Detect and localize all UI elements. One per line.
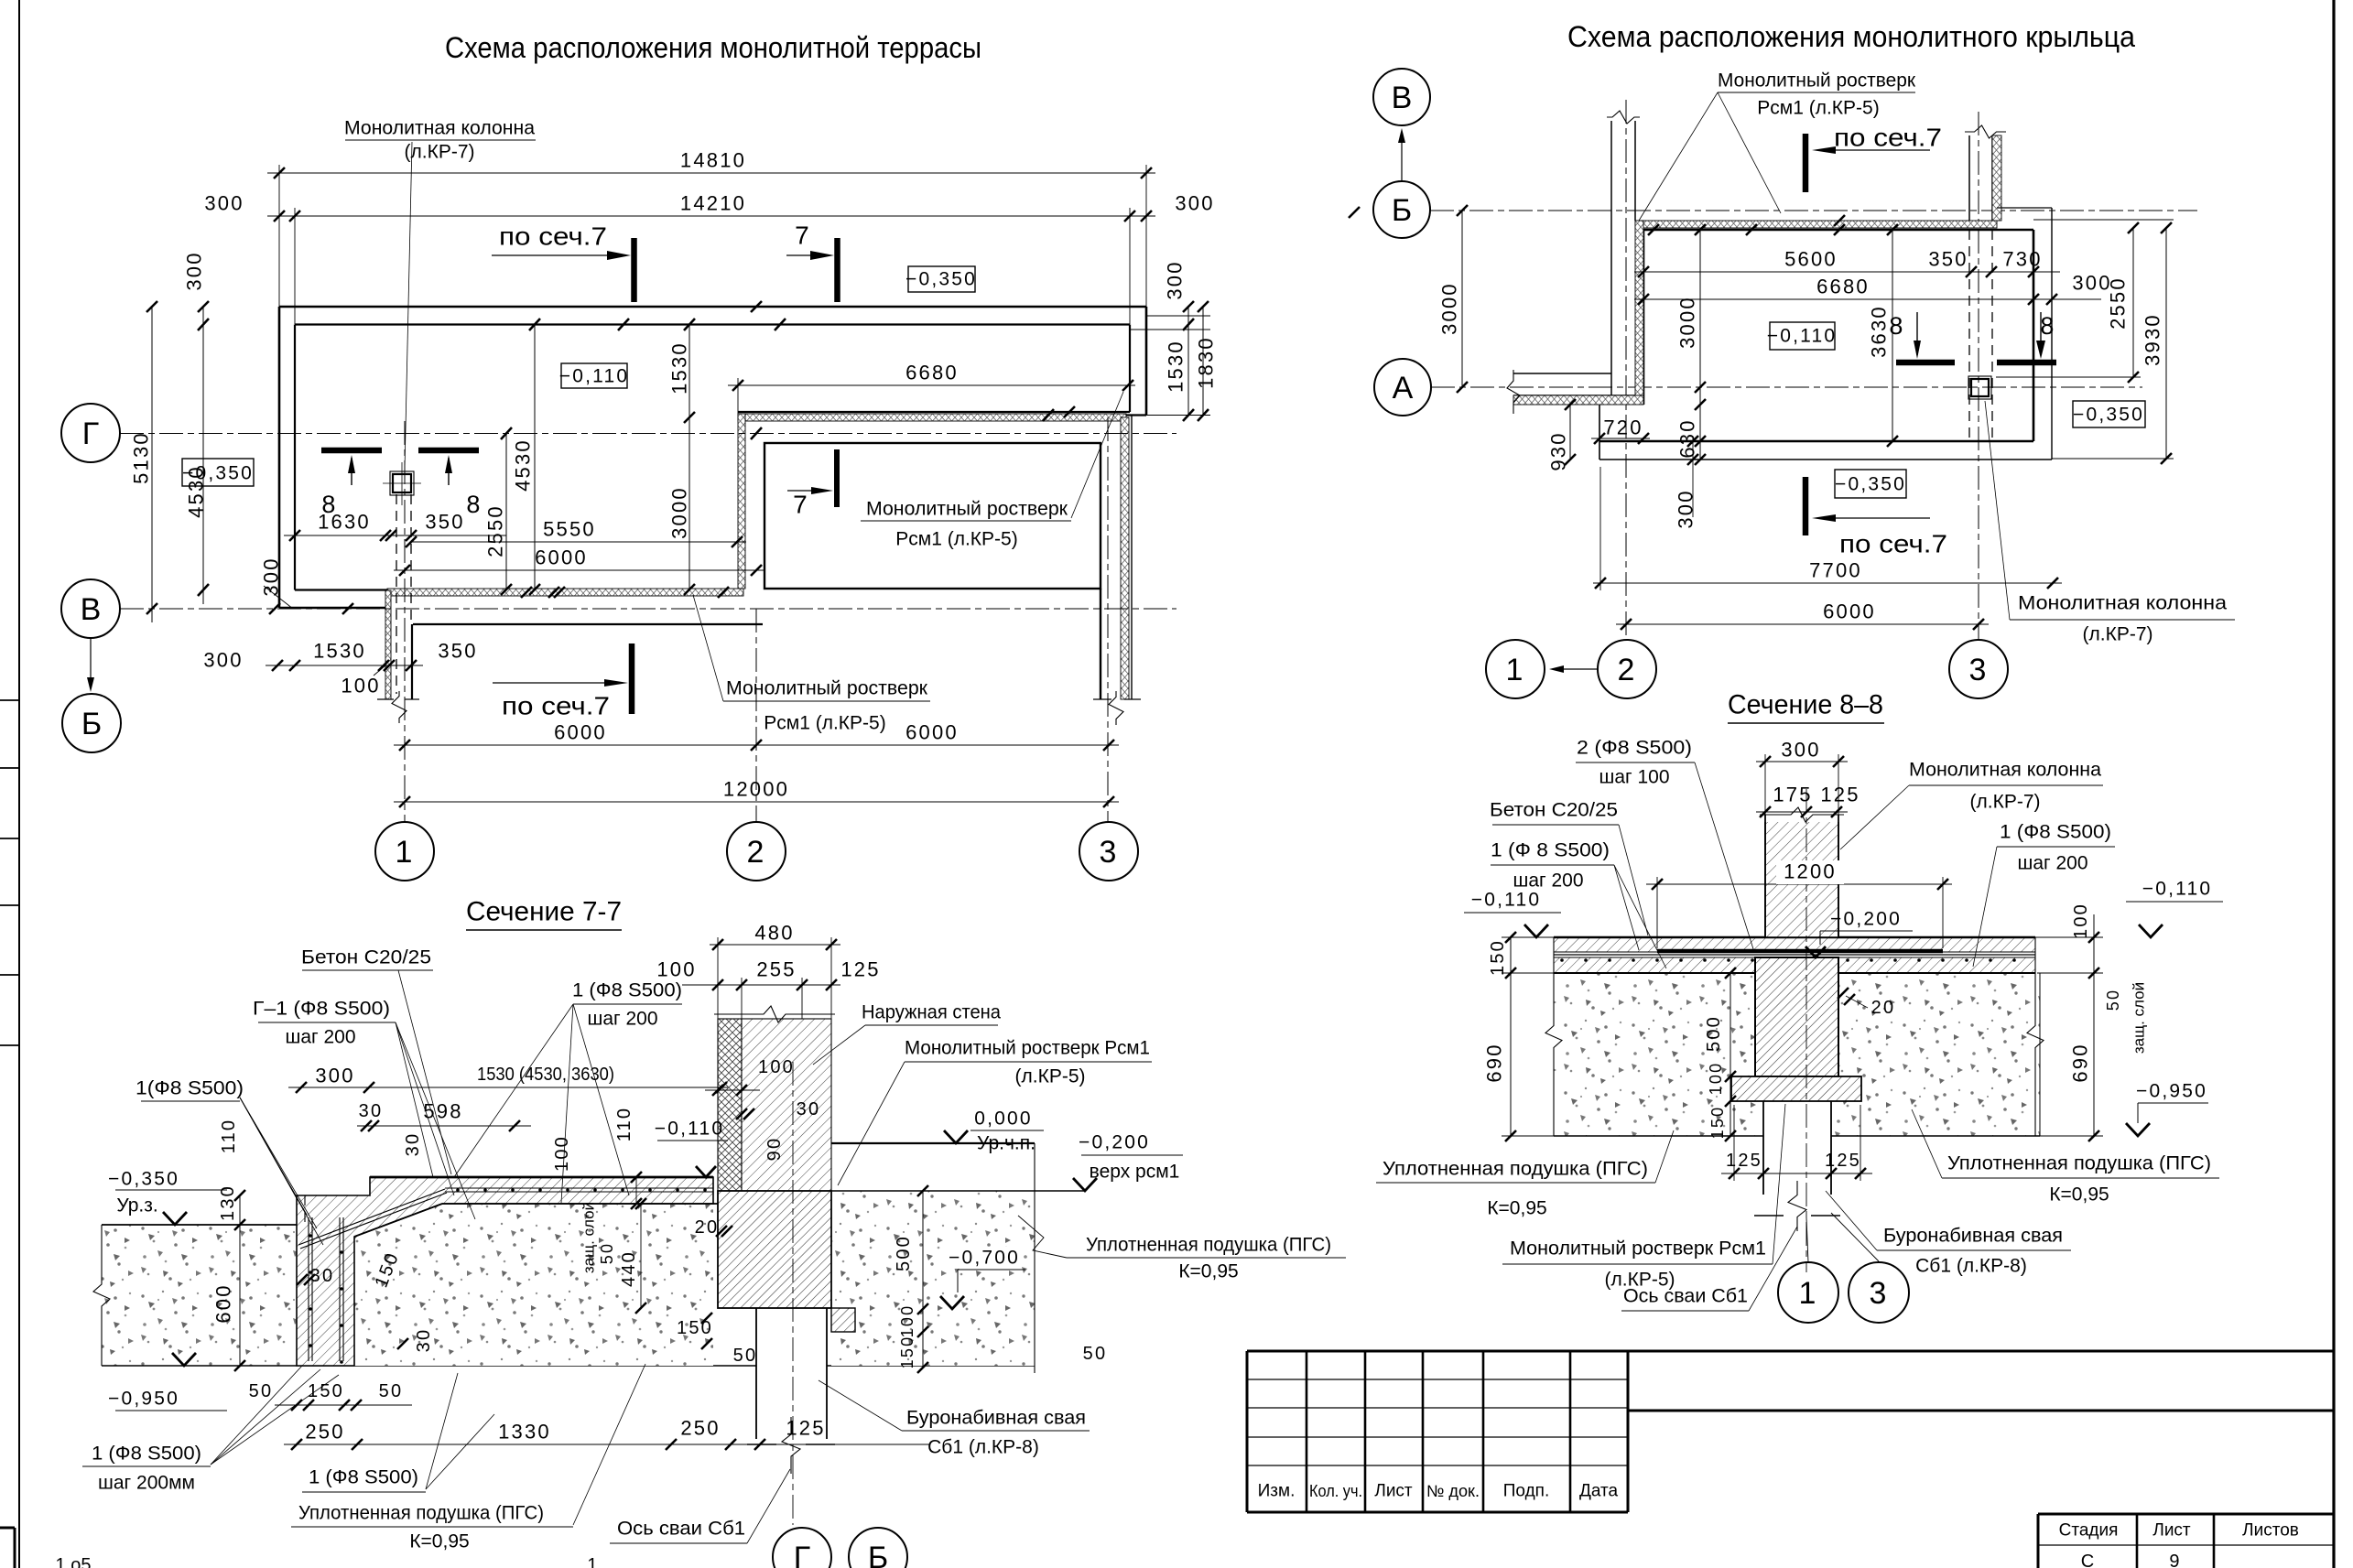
svg-text:125: 125 bbox=[1825, 1151, 1861, 1171]
dim row 1630 350 bbox=[284, 535, 506, 536]
leader bottom label bbox=[693, 595, 723, 701]
svg-text:20: 20 bbox=[695, 1217, 720, 1238]
svg-text:100: 100 bbox=[898, 1304, 916, 1338]
svg-text:175: 175 bbox=[1773, 784, 1812, 806]
svg-text:110: 110 bbox=[614, 1107, 634, 1142]
svg-text:−0,350: −0,350 bbox=[108, 1169, 179, 1190]
middle bed stipple under slab bbox=[370, 1204, 713, 1366]
svg-text:№ док.: № док. bbox=[1426, 1482, 1480, 1500]
slab top thick line 8-8 bbox=[1554, 936, 2035, 939]
slab bottom lines 8-8 bbox=[1554, 972, 1755, 974]
right vertical dim 1830 bbox=[1202, 307, 1204, 416]
svg-text:Лист: Лист bbox=[2152, 1521, 2191, 1541]
svg-text:Уплотненная подушка (ПГС): Уплотненная подушка (ПГС) bbox=[1947, 1153, 2211, 1174]
right wing break symbol bbox=[1109, 691, 1123, 725]
column axis line 8-8 bbox=[1805, 789, 1807, 1272]
revision table verticals bbox=[1306, 1351, 1308, 1512]
right wing vertical thick line bbox=[1100, 589, 1101, 699]
section 8 bars porch bbox=[1896, 360, 1955, 366]
axis circle В bbox=[61, 579, 120, 638]
axis circles 1 3 under 8-8 bbox=[1778, 1262, 1838, 1323]
svg-text:50: 50 bbox=[1083, 1344, 1108, 1364]
svg-text:Монолитный ростверк Рсм1: Монолитный ростверк Рсм1 bbox=[1510, 1238, 1766, 1260]
svg-text:Стадия: Стадия bbox=[2059, 1521, 2119, 1541]
lower slab top edge line bbox=[413, 623, 763, 625]
svg-text:20: 20 bbox=[1871, 998, 1896, 1018]
svg-text:440: 440 bbox=[619, 1250, 639, 1287]
terrace slab bottom inner line bbox=[295, 589, 387, 590]
svg-text:1330: 1330 bbox=[498, 1421, 551, 1444]
porch axis circle 3 bbox=[1949, 640, 2008, 698]
rebar dots 8-8 bbox=[1560, 958, 1564, 962]
svg-text:защ. слой: защ. слой bbox=[580, 1202, 598, 1273]
beam vertical rebars bbox=[308, 1217, 309, 1361]
porch vertical dim 930 bbox=[1569, 405, 1571, 460]
porch small dim 300 bottom bbox=[1692, 438, 1694, 517]
svg-text:Г: Г bbox=[82, 416, 99, 451]
svg-text:1 (Ф8 S500): 1 (Ф8 S500) bbox=[309, 1467, 418, 1488]
svg-text:125: 125 bbox=[840, 958, 880, 981]
left wing hidden dashed lines bbox=[396, 494, 397, 694]
svg-text:−0,200: −0,200 bbox=[1830, 909, 1902, 930]
section 8 arrows down porch bbox=[1916, 312, 1918, 355]
svg-text:Монолитная колонна: Монолитная колонна bbox=[1909, 760, 2101, 781]
svg-text:Буронабивная свая: Буронабивная свая bbox=[906, 1408, 1086, 1429]
right wing hatched band bbox=[1121, 417, 1129, 699]
bed bottom line right part bbox=[827, 1365, 1035, 1367]
svg-text:3000: 3000 bbox=[1676, 296, 1699, 349]
svg-text:Б: Б bbox=[868, 1541, 888, 1568]
svg-text:по сеч.7: по сеч.7 bbox=[1834, 124, 1942, 152]
dim 300 / 1530(4530,3630) bbox=[288, 1087, 728, 1088]
svg-text:100: 100 bbox=[656, 958, 696, 981]
svg-text:6000: 6000 bbox=[1823, 600, 1876, 623]
svg-text:1630: 1630 bbox=[318, 511, 371, 534]
right wall hatch band bbox=[1992, 135, 2001, 221]
dim row 5550 bbox=[411, 541, 746, 543]
svg-text:3000: 3000 bbox=[668, 486, 691, 539]
revision table horizontals bbox=[1247, 1379, 1628, 1380]
column centre cross lines bbox=[383, 482, 421, 484]
title block top line bbox=[1247, 1350, 2334, 1353]
dim row 6000 6000 bottom bbox=[394, 744, 1119, 746]
slab thick rebar bar 8-8 bbox=[1657, 949, 1943, 954]
svg-text:(л.КР-7): (л.КР-7) bbox=[405, 142, 475, 163]
svg-text:шаг 200: шаг 200 bbox=[587, 1009, 657, 1030]
svg-text:−0,350: −0,350 bbox=[2073, 405, 2144, 426]
svg-text:1 (Ф 8 S500): 1 (Ф 8 S500) bbox=[1491, 840, 1610, 861]
svg-text:5600: 5600 bbox=[1784, 248, 1838, 271]
sheet frame right border bbox=[2332, 0, 2335, 1568]
axis circle 1 (terrace) bbox=[375, 822, 434, 881]
terrace strip inner bottom line bbox=[738, 411, 1130, 413]
porch right thick edge bbox=[2033, 230, 2035, 441]
extension lines top row bbox=[278, 165, 280, 307]
svg-text:К=0,95: К=0,95 bbox=[1487, 1198, 1546, 1219]
svg-text:−0,700: −0,700 bbox=[949, 1248, 1020, 1269]
porch axis circle А bbox=[1374, 359, 1431, 416]
pile break 8-8 bbox=[1788, 1181, 1806, 1231]
svg-text:С: С bbox=[2081, 1552, 2094, 1568]
axis circle Г bbox=[61, 404, 120, 462]
rebar diagonal pair into beam bbox=[298, 1189, 445, 1245]
svg-text:30: 30 bbox=[414, 1328, 434, 1353]
axis circle Б bbox=[62, 694, 121, 752]
porch vertical dim 3930 bbox=[2165, 228, 2167, 459]
left vertical dim line 4530/300 bbox=[202, 307, 204, 604]
svg-text:Подп.: Подп. bbox=[1503, 1482, 1549, 1501]
left wall hatch vertical band bbox=[1635, 221, 1643, 395]
svg-text:1200: 1200 bbox=[1784, 860, 1837, 883]
left compacted bed stipple bbox=[102, 1225, 297, 1366]
svg-text:1 (Ф8 S500): 1 (Ф8 S500) bbox=[2000, 822, 2111, 843]
svg-text:50: 50 bbox=[598, 1242, 616, 1264]
porch bottom step vertical bbox=[1599, 405, 1600, 460]
wall horizontal hatch band bbox=[1513, 395, 1643, 405]
frame bottom-left corner stub bbox=[0, 1527, 15, 1530]
svg-text:150: 150 bbox=[1708, 1106, 1727, 1140]
svg-text:600: 600 bbox=[212, 1283, 235, 1323]
porch axis circle 1 bbox=[1486, 640, 1545, 698]
left wing hatched band bbox=[385, 590, 391, 699]
svg-text:300: 300 bbox=[183, 251, 206, 290]
left wall verticals above porch bbox=[1610, 121, 1612, 395]
axis 2 vertical porch bbox=[1625, 100, 1627, 640]
axis 2 vertical line bbox=[755, 609, 757, 822]
terrace inner outline right bbox=[1129, 325, 1131, 413]
porch dim row 6000 bbox=[1616, 623, 1989, 625]
axis 1 vertical line bbox=[404, 421, 406, 822]
svg-text:2: 2 bbox=[1617, 653, 1636, 687]
svg-text:1: 1 bbox=[395, 835, 414, 870]
svg-text:(л.КР-5): (л.КР-5) bbox=[1015, 1066, 1086, 1087]
dim 30 598 bbox=[357, 1125, 531, 1127]
svg-text:1530: 1530 bbox=[1165, 340, 1187, 393]
level box -0,110 porch bbox=[1770, 322, 1835, 350]
frame left stub marks bbox=[0, 699, 19, 701]
porch axis circle 2 bbox=[1598, 640, 1656, 698]
leaders to top band bbox=[1639, 92, 1718, 221]
svg-text:12000: 12000 bbox=[723, 778, 789, 801]
pile below grillage bbox=[755, 1308, 757, 1439]
right bed right edge bbox=[1034, 1143, 1036, 1373]
hidden dashed grillage edges in porch bbox=[1968, 230, 1970, 441]
svg-text:В: В bbox=[1392, 81, 1413, 115]
left wall top break bbox=[1607, 111, 1640, 124]
svg-text:3630: 3630 bbox=[1868, 305, 1891, 358]
svg-text:300: 300 bbox=[1175, 192, 1214, 215]
svg-text:Сб1 (л.КР-8): Сб1 (л.КР-8) bbox=[927, 1437, 1039, 1458]
sheet frame left border bbox=[18, 0, 20, 1568]
svg-text:Уплотненная подушка (ПГС): Уплотненная подушка (ПГС) bbox=[298, 1503, 544, 1524]
grillage step right bbox=[831, 1308, 855, 1332]
level box -0,350 porch right bbox=[2073, 401, 2145, 427]
svg-text:Рсм1 (л.КР-5): Рсм1 (л.КР-5) bbox=[764, 713, 885, 734]
svg-text:Кол. уч.: Кол. уч. bbox=[1309, 1482, 1362, 1500]
porch left thick edge bbox=[1643, 230, 1645, 405]
dim 125 125 pile 8-8 bbox=[1721, 1173, 1872, 1174]
svg-text:Наружная стена: Наружная стена bbox=[862, 1002, 1001, 1023]
svg-text:1530: 1530 bbox=[668, 341, 691, 395]
terrace outer outline right bbox=[1145, 307, 1148, 416]
left vertical dim line 5130 bbox=[151, 307, 153, 622]
porch outer right line bbox=[2051, 208, 2053, 460]
svg-text:К=0,95: К=0,95 bbox=[409, 1531, 469, 1552]
svg-text:−0,950: −0,950 bbox=[2136, 1081, 2207, 1102]
porch vertical dim 3630 bbox=[1892, 230, 1893, 441]
svg-text:14210: 14210 bbox=[680, 192, 746, 215]
svg-text:110: 110 bbox=[219, 1119, 239, 1154]
svg-text:Ось сваи Сб1: Ось сваи Сб1 bbox=[617, 1519, 745, 1540]
terrace slab bottom outer line bbox=[279, 607, 385, 610]
dim 300 column 8-8 bbox=[1756, 761, 1848, 762]
svg-text:К=0,95: К=0,95 bbox=[1178, 1261, 1238, 1282]
svg-text:Монолитный ростверк Рсм1: Монолитный ростверк Рсм1 bbox=[905, 1038, 1150, 1059]
wall top break bbox=[714, 1006, 835, 1022]
porch dim row 7700 bbox=[1593, 582, 2062, 584]
slab hatched bottom band right bbox=[1838, 957, 2035, 973]
svg-text:Сечение 8–8: Сечение 8–8 bbox=[1728, 690, 1883, 720]
floor line 0,000 bbox=[831, 1142, 1035, 1144]
svg-text:250: 250 bbox=[680, 1417, 720, 1440]
section 8 cut bars in terrace plan bbox=[321, 448, 382, 454]
svg-text:125: 125 bbox=[786, 1417, 825, 1440]
svg-text:300: 300 bbox=[1164, 260, 1187, 299]
title block left edge bbox=[1246, 1351, 1249, 1512]
svg-text:Монолитная колонна: Монолитная колонна bbox=[344, 118, 535, 139]
grillage hatched band slab bottom (plan) bbox=[387, 589, 743, 596]
svg-text:255: 255 bbox=[756, 958, 796, 981]
svg-text:30: 30 bbox=[359, 1101, 384, 1121]
svg-text:В: В bbox=[81, 592, 102, 627]
outer wall hatched (cross band) bbox=[718, 1019, 742, 1191]
slab top thick line bbox=[370, 1176, 713, 1179]
grillage hatched band top (plan) bbox=[738, 414, 1126, 421]
svg-text:5130: 5130 bbox=[130, 431, 153, 484]
grillage step 8-8 bbox=[1731, 1076, 1861, 1101]
dim row 300 1530 350 bottom bbox=[266, 665, 423, 666]
svg-text:Рсм1 (л.КР-5): Рсм1 (л.КР-5) bbox=[1757, 98, 1879, 119]
svg-text:6680: 6680 bbox=[1816, 276, 1870, 298]
svg-text:Монолитная колонна: Монолитная колонна bbox=[2018, 593, 2227, 614]
vertical dim 2550 bbox=[505, 434, 507, 590]
svg-text:по сеч.7: по сеч.7 bbox=[502, 692, 610, 720]
svg-text:300: 300 bbox=[1781, 739, 1820, 762]
porch dim row 6680/300 bbox=[1634, 298, 2101, 300]
svg-text:Ур.з.: Ур.з. bbox=[116, 1195, 157, 1217]
left bed break edge bbox=[93, 1225, 110, 1366]
svg-text:2 (Ф8 S500): 2 (Ф8 S500) bbox=[1577, 738, 1692, 759]
svg-text:300: 300 bbox=[315, 1065, 354, 1087]
svg-text:350: 350 bbox=[438, 640, 477, 663]
arrow circle2 to circle1 bbox=[1556, 668, 1598, 670]
svg-text:300: 300 bbox=[203, 649, 243, 672]
dim 6680 terrace bbox=[728, 384, 1135, 386]
section mark по сеч.7 top (porch) bbox=[1803, 134, 1809, 192]
svg-text:верх рсм1: верх рсм1 bbox=[1090, 1162, 1180, 1183]
svg-text:−0,110: −0,110 bbox=[1767, 326, 1837, 347]
svg-text:125: 125 bbox=[1820, 784, 1860, 806]
rebar dots in slab bbox=[456, 1188, 460, 1192]
column above slab 8-8 bbox=[1765, 819, 1838, 937]
svg-text:шаг 200мм: шаг 200мм bbox=[98, 1473, 195, 1494]
left wing right line bbox=[411, 624, 413, 699]
extension lines to left dim 8-8 bbox=[1502, 936, 1556, 938]
svg-text:1(Ф8 S500): 1(Ф8 S500) bbox=[136, 1078, 244, 1099]
svg-text:3: 3 bbox=[1099, 835, 1118, 870]
svg-text:50: 50 bbox=[379, 1381, 404, 1401]
svg-text:2550: 2550 bbox=[484, 504, 507, 557]
inner thick rectangle right region bbox=[764, 443, 1101, 589]
svg-text:Монолитный ростверк: Монолитный ростверк bbox=[726, 678, 928, 699]
bed stipple left 8-8 bbox=[1554, 973, 1755, 1136]
svg-text:50: 50 bbox=[733, 1346, 758, 1366]
svg-text:1 о5: 1 о5 bbox=[56, 1555, 92, 1568]
slab rebar pair horizontal bbox=[445, 1187, 713, 1189]
svg-text:720: 720 bbox=[1603, 416, 1643, 439]
bed bottom line 8-8 bbox=[1554, 1135, 1763, 1137]
svg-text:−0,350: −0,350 bbox=[905, 269, 977, 290]
vertical dim 1530/3000 at x753 bbox=[689, 325, 690, 590]
terrace strip outer bottom line bbox=[738, 414, 1146, 416]
vertical dim 150/690 left 8-8 bbox=[1510, 937, 1512, 1136]
terrace outer outline left bbox=[278, 307, 281, 608]
wall horizontal band lines at axis А bbox=[1513, 373, 1611, 374]
level mark -0,700 bbox=[950, 1247, 1020, 1269]
vertical chain 500 100 150 8-8 bbox=[1730, 973, 1731, 1136]
svg-text:300: 300 bbox=[1675, 489, 1697, 528]
svg-text:3: 3 bbox=[1869, 1276, 1888, 1311]
column top break 8-8 bbox=[1762, 804, 1841, 822]
right wall top break bbox=[1965, 125, 2006, 138]
svg-text:7: 7 bbox=[795, 222, 811, 250]
svg-text:6000: 6000 bbox=[554, 721, 607, 744]
svg-text:шаг 200: шаг 200 bbox=[285, 1027, 355, 1048]
porch vertical dim 3000 left bbox=[1461, 211, 1463, 387]
porch axis tick marks bbox=[1349, 207, 1360, 218]
dim row 12000 bbox=[394, 801, 1119, 803]
svg-text:Уплотненная подушка (ПГС): Уплотненная подушка (ПГС) bbox=[1086, 1235, 1331, 1256]
svg-text:8: 8 bbox=[1889, 312, 1904, 340]
porch axis circle В bbox=[1373, 69, 1430, 125]
slab rebar line 8-8 bbox=[1554, 954, 2035, 956]
svg-text:90: 90 bbox=[764, 1137, 785, 1162]
svg-text:150: 150 bbox=[308, 1381, 344, 1401]
svg-text:8: 8 bbox=[2040, 312, 2055, 340]
svg-text:Изм.: Изм. bbox=[1258, 1482, 1296, 1501]
pile break and end bbox=[782, 1417, 800, 1474]
svg-text:480: 480 bbox=[754, 922, 794, 945]
svg-text:930: 930 bbox=[1547, 431, 1570, 470]
svg-text:−0,110: −0,110 bbox=[559, 366, 629, 387]
svg-text:Схема расположения монолитного: Схема расположения монолитного крыльца bbox=[1567, 20, 2135, 53]
svg-text:100: 100 bbox=[341, 675, 380, 697]
slab bottom slope line bbox=[354, 1204, 442, 1237]
svg-text:6000: 6000 bbox=[905, 721, 959, 744]
arrow Б to В bbox=[1401, 132, 1403, 181]
svg-text:по сеч.7: по сеч.7 bbox=[1839, 530, 1947, 558]
dim row 250 1330 250 125 bbox=[284, 1444, 929, 1445]
svg-text:шаг 100: шаг 100 bbox=[1599, 767, 1669, 788]
svg-text:350: 350 bbox=[425, 511, 464, 534]
level box -0,350 left bbox=[182, 459, 254, 486]
svg-text:300: 300 bbox=[204, 192, 244, 215]
bed bottom line left part bbox=[102, 1365, 756, 1367]
svg-text:5550: 5550 bbox=[543, 518, 596, 541]
svg-text:(л.КР-7): (л.КР-7) bbox=[1970, 792, 2041, 813]
pile 8-8 bbox=[1762, 1101, 1764, 1195]
svg-text:1830: 1830 bbox=[1195, 336, 1218, 389]
svg-text:Монолитный ростверк: Монолитный ростверк bbox=[1718, 70, 1916, 92]
svg-text:500: 500 bbox=[1704, 1015, 1724, 1052]
edge beam and slab hatched section bbox=[297, 1177, 713, 1366]
axis circle 2 (terrace) bbox=[727, 822, 786, 881]
left wing break symbol bbox=[392, 691, 407, 723]
svg-text:1 (Ф8 S500): 1 (Ф8 S500) bbox=[92, 1444, 201, 1465]
svg-text:50: 50 bbox=[249, 1381, 274, 1401]
stadia list listov header line bbox=[2038, 1513, 2334, 1516]
svg-text:100: 100 bbox=[552, 1135, 572, 1172]
porch dim 720 bbox=[1591, 438, 1650, 439]
svg-text:Г–1 (Ф8 S500): Г–1 (Ф8 S500) bbox=[253, 999, 390, 1020]
right bed top line -0,200 bbox=[720, 1190, 1085, 1192]
dim row 6000 inner bbox=[394, 569, 765, 571]
svg-text:Рсм1 (л.КР-5): Рсм1 (л.КР-5) bbox=[895, 529, 1017, 550]
porch bottom thick edge bbox=[1599, 440, 2033, 443]
axis А horizontal bbox=[1431, 386, 2142, 388]
svg-text:1 (Ф8 S500): 1 (Ф8 S500) bbox=[572, 980, 682, 1001]
porch bottom outer thin edge bbox=[1599, 459, 2052, 460]
section 8 arrows up bbox=[351, 458, 352, 485]
svg-text:6000: 6000 bbox=[535, 546, 588, 569]
beam hidden dashed top bbox=[305, 1195, 370, 1196]
porch dim row 5600 350 730 bbox=[1634, 271, 2060, 273]
svg-text:690: 690 bbox=[1483, 1043, 1506, 1082]
leader to porch column bbox=[1985, 401, 2010, 620]
stadia table verticals bbox=[2037, 1514, 2040, 1568]
axis 3 vertical porch bbox=[1978, 112, 1979, 639]
svg-text:−0,950: −0,950 bbox=[108, 1389, 179, 1410]
svg-text:4530: 4530 bbox=[185, 465, 208, 518]
svg-text:Бетон С20/25: Бетон С20/25 bbox=[1490, 800, 1618, 821]
axis circles Г Б below section 7-7 bbox=[773, 1528, 831, 1568]
column at axis 3/А (porch) bbox=[1968, 376, 1991, 399]
svg-text:(л.КР-7): (л.КР-7) bbox=[2083, 624, 2153, 645]
svg-text:−0,110: −0,110 bbox=[655, 1119, 724, 1140]
svg-text:Бетон С20/25: Бетон С20/25 bbox=[301, 947, 431, 968]
svg-text:шаг 200: шаг 200 bbox=[1513, 871, 1583, 892]
svg-text:6680: 6680 bbox=[905, 362, 959, 384]
svg-text:14810: 14810 bbox=[680, 149, 746, 172]
svg-text:690: 690 bbox=[2069, 1043, 2092, 1082]
svg-text:130: 130 bbox=[218, 1184, 238, 1221]
extension lines to right dim 8-8 bbox=[2033, 936, 2103, 938]
svg-text:Г: Г bbox=[794, 1541, 810, 1568]
svg-text:730: 730 bbox=[2002, 248, 2042, 271]
porch axis circle Б bbox=[1373, 181, 1430, 238]
dim 1200 8-8 bbox=[1646, 883, 1952, 885]
svg-text:2: 2 bbox=[746, 835, 765, 870]
terrace inner outline top bbox=[295, 323, 1130, 325]
svg-text:50: 50 bbox=[2104, 989, 2122, 1011]
bed left break edge 8-8 bbox=[1545, 937, 1562, 1136]
svg-text:А: А bbox=[1393, 371, 1414, 406]
svg-text:защ. слой: защ. слой bbox=[2131, 982, 2148, 1054]
slab hatched top band 8-8 bbox=[1554, 937, 2035, 952]
grillage under wall hatched bbox=[718, 1191, 831, 1308]
pile axis line bbox=[792, 1062, 794, 1525]
svg-text:−0,200: −0,200 bbox=[1079, 1132, 1150, 1153]
